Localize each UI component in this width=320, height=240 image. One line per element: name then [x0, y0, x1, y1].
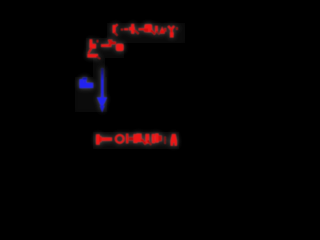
atom O2 ester oxygen cross glyph: [129, 24, 139, 34]
atom O8 bottom-left with half-bond: [96, 134, 112, 144]
atom O10 with dashes: [126, 134, 133, 144]
atom O11 double blob: [133, 134, 146, 145]
atom O4 with half-bonds: [155, 26, 166, 35]
bond C-O3 half-bond: [139, 28, 145, 30]
bond O1-C half-bond: [124, 28, 128, 30]
atom N1 label (blue) with half-bond: [79, 77, 93, 88]
wedge bond to N (blue arrowhead): [97, 97, 107, 112]
atom O12 with tail: [145, 134, 151, 145]
bond to O7: [101, 42, 116, 48]
atom O13 double-hump blob: [152, 134, 162, 144]
atom O6 left fragment carbonyl: [87, 39, 100, 59]
atom O7 label blob: [116, 44, 124, 51]
atom O9 ring glyph: [116, 135, 124, 143]
atom O5 carbonyl group (V + double bond down): [168, 26, 178, 38]
faint jpeg-artifact gray blocks: [75, 23, 185, 149]
bond segment dim: [164, 137, 166, 145]
atom O3 label blob: [144, 24, 155, 34]
bond N1 vertical (blue): [101, 68, 104, 98]
atom O14 A-shaped glyph: [171, 134, 178, 146]
atom O1 top-left carbonyl oxygen with half-bonds: [108, 24, 123, 41]
